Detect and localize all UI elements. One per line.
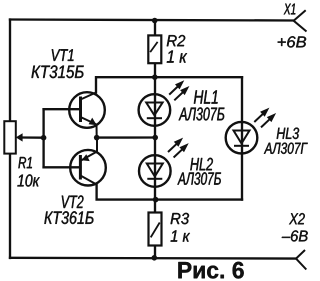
label HL1	[194, 90, 218, 103]
label KT361B	[44, 211, 93, 224]
HL1 emission arrows	[169, 80, 184, 94]
LED HL2	[139, 155, 171, 187]
label X1	[284, 4, 296, 15]
label AL307B HL1	[179, 107, 225, 120]
wire main vertical (R2-HL1-HL2-R3)	[154, 21, 156, 259]
junction R3 bottom / bottom bus	[152, 255, 158, 261]
junction emitters VT1/VT2	[94, 135, 100, 141]
LED HL1	[139, 94, 171, 126]
junction top bus / R2	[152, 18, 158, 24]
wire VT2 base	[44, 166, 81, 168]
caption Ris. 6	[178, 262, 243, 279]
label R3	[171, 213, 189, 224]
wire HL3 vertical branch	[241, 77, 243, 199]
potentiometer R1	[4, 121, 22, 153]
junction base tie / R1 wiper	[41, 135, 47, 141]
junction R2 bottom / HL1 / HL3 branch	[152, 74, 158, 80]
label -6V	[282, 230, 308, 241]
label HL2	[190, 158, 213, 171]
wire collector row (VT1 collector to R2 bottom, on to HL3)	[96, 77, 242, 92]
wire base tie vertical	[42, 109, 44, 167]
wire bottom bus -6V	[10, 257, 296, 260]
label HL3	[277, 128, 299, 139]
label 10k	[17, 174, 39, 186]
label 1k R2	[167, 51, 187, 63]
VT2 emitter arrow	[82, 154, 90, 161]
label VT2	[62, 195, 84, 208]
wire emitter tie row	[97, 136, 156, 138]
LED HL3	[226, 122, 258, 154]
label X2	[289, 213, 305, 224]
transistor VT2 (PNP KT361B)	[70, 138, 106, 186]
VT1 emitter arrow	[89, 118, 97, 126]
label +6V	[278, 36, 306, 47]
label R1	[18, 157, 32, 168]
junction HL2 cathode / R3 / HL3 branch	[153, 197, 159, 203]
resistor R3	[149, 213, 162, 246]
connector X1	[294, 10, 307, 31]
HL2 emission arrows	[168, 138, 183, 152]
label KT315B	[32, 65, 84, 78]
junction HL1 cathode / HL2 anode	[152, 135, 158, 141]
wire left bus	[9, 20, 11, 259]
wire collector row bottom (VT2 collector to HL2/R3 node to HL3)	[97, 185, 242, 200]
resistor R2	[148, 35, 161, 63]
transistor VT1 (NPN KT315B)	[69, 92, 105, 137]
wire R1 wiper to base tie	[22, 136, 44, 139]
label AL307B HL2	[177, 172, 221, 185]
label R2	[167, 35, 185, 46]
label AL307G HL3	[264, 143, 308, 154]
HL3 emission arrows	[254, 108, 269, 122]
label 1k R3	[171, 230, 190, 241]
label VT1	[52, 49, 74, 61]
connector X2	[296, 250, 306, 270]
wire top bus +6V	[10, 20, 294, 21]
wire VT1 base	[44, 108, 81, 110]
